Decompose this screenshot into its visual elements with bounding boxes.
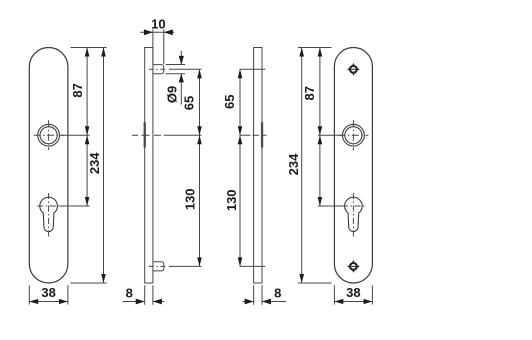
dimension 65 profile A: line — [197, 69, 202, 135]
left hub centerline vertical — [48, 120, 50, 150]
left plate handle hub hole — [38, 124, 60, 146]
svg-text:234: 234 — [87, 152, 102, 174]
dimension 38 right: line — [334, 299, 372, 304]
profile A hub recess band — [144, 122, 146, 147]
dimension O9: line with outside arrows — [179, 51, 184, 105]
right hub centerline horizontal — [338, 134, 368, 136]
dimension 8 profile B: line with outside arrows — [243, 299, 287, 305]
right plate outline — [334, 48, 372, 284]
dimension 234 right: line — [299, 48, 304, 284]
profile A bottom pin centerline — [149, 265, 168, 267]
right bottom extension line — [298, 282, 332, 284]
left plate keyhole (euro profile) — [40, 197, 58, 231]
svg-text:234: 234 — [286, 153, 301, 175]
left keyhole centerline vertical — [48, 193, 50, 237]
right keyhole centerline horizontal — [342, 205, 365, 207]
right plate keyhole (euro profile) — [345, 197, 363, 231]
dimension 8 profile B: extension lines — [254, 285, 262, 305]
dimension 38 left: line — [29, 299, 68, 304]
svg-text:8: 8 — [126, 285, 133, 300]
svg-text:Ø9: Ø9 — [165, 86, 180, 103]
dimension 8 profile A: line with outside arrows — [123, 299, 165, 305]
svg-text:130: 130 — [224, 189, 239, 211]
left hub centerline horizontal — [34, 134, 64, 136]
dimension 130 profile B: line — [238, 135, 243, 266]
right keyhole centerline vertical — [352, 193, 354, 237]
profile view B bar — [254, 48, 262, 284]
profile B screw level tick bottom — [240, 265, 265, 267]
left top extension line — [71, 47, 107, 49]
profile A top pin centerline — [149, 68, 168, 70]
dimension 130 profile A: line — [197, 135, 202, 266]
profile A pin1 center extension line — [169, 68, 202, 70]
svg-text:130: 130 — [182, 188, 197, 210]
dimension O9: extension lines — [166, 65, 185, 74]
left bottom extension line — [71, 282, 107, 284]
svg-text:10: 10 — [151, 16, 165, 31]
dimension hub-keyhole left: line — [85, 135, 90, 206]
right plate top screw — [347, 63, 360, 76]
dimension 8 profile A: extension lines — [145, 285, 153, 305]
profile B hub extension line — [240, 134, 267, 136]
left plate outline — [29, 48, 68, 284]
svg-text:65: 65 — [222, 94, 237, 108]
dimension 38 left: extension lines — [29, 285, 68, 304]
right top extension line — [298, 47, 332, 49]
dimension 65 profile B: line — [238, 69, 243, 135]
profile A hub centerline dashes — [132, 134, 162, 136]
profile B screw level tick top — [240, 68, 265, 70]
svg-text:65: 65 — [182, 96, 197, 110]
left keyhole centerline horizontal — [37, 205, 60, 207]
dimension hub-keyhole right: line — [318, 135, 323, 206]
profile A top pin — [153, 65, 164, 74]
profile A hub extension line — [164, 134, 202, 136]
svg-text:38: 38 — [41, 285, 55, 300]
left keyhole extension line — [59, 205, 89, 207]
right keyhole extension line — [318, 205, 343, 207]
profile A bottom pin — [153, 262, 164, 271]
profile A pin2 center extension line — [169, 265, 202, 267]
dimension 234 left: line — [101, 48, 106, 284]
dimension 87 right: line — [318, 48, 323, 136]
profile view A bar — [145, 48, 153, 284]
dimension 87 left: line — [85, 48, 90, 136]
right hub centerline vertical — [352, 120, 354, 150]
svg-text:87: 87 — [70, 83, 85, 97]
right plate bottom screw — [347, 260, 360, 273]
dimension 38 right: extension lines — [334, 285, 372, 304]
right plate handle hub hole — [343, 124, 365, 146]
left hub extension line — [60, 134, 89, 136]
svg-text:38: 38 — [346, 285, 360, 300]
dimension 10: extension lines — [153, 30, 164, 65]
right hub extension line — [318, 134, 343, 136]
svg-text:87: 87 — [302, 86, 317, 100]
profile B hub recess band — [261, 122, 263, 147]
svg-text:8: 8 — [274, 285, 281, 300]
dimension 10: line with outside arrows — [140, 29, 174, 35]
